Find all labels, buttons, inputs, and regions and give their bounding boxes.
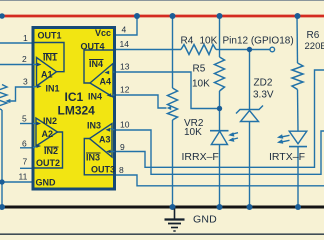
node B R5/pin13/IRRX (217, 106, 222, 111)
svg-text:A4: A4 (100, 77, 112, 87)
wire R4 right to node (216, 49, 220, 51)
wire ZD2 top from GPIO wire (249, 50, 251, 110)
resistor R4 10K (horizontal) (181, 45, 216, 55)
wire pin13 IN4- to node B (115, 72, 220, 109)
pin numbers (19, 25, 130, 182)
wire red bus to VR2 top (172, 16, 174, 88)
wire pin3 IN1+ to VR1 wiper (10, 87, 33, 101)
svg-text:3: 3 (23, 77, 28, 87)
svg-text:9: 9 (120, 142, 125, 152)
IR LED IRTX-F (281, 131, 307, 146)
IC1 LM324 body (33, 28, 115, 190)
svg-text:LM324: LM324 (58, 104, 96, 118)
node GND bus / IRRX (217, 204, 223, 210)
svg-text:10K: 10K (192, 79, 210, 90)
svg-text:OUT4: OUT4 (81, 41, 105, 51)
component value labels (181, 30, 324, 226)
wire IRTX cathode to GND bus (297, 147, 299, 207)
node pin11 / left edge (0, 179, 5, 184)
wire pin7 stub (20, 167, 33, 169)
resistor R6 220E (vertical) (292, 63, 303, 90)
svg-text:OUT1: OUT1 (38, 31, 62, 41)
svg-text:IN4: IN4 (88, 92, 102, 102)
svg-text:IRTX–F: IRTX–F (269, 151, 305, 163)
svg-text:GND: GND (193, 214, 217, 226)
svg-text:OUT3: OUT3 (91, 164, 115, 174)
wire pin5 stub (20, 123, 33, 125)
wire R5 bottom to node B (219, 91, 221, 109)
potentiometer VR2 10K (vertical) (168, 88, 178, 120)
node GND bus / IRTX (295, 204, 301, 210)
svg-text:2: 2 (22, 54, 27, 64)
svg-text:Pin12 (GPIO18): Pin12 (GPIO18) (223, 36, 294, 47)
wire pin4 Vcc to red bus (115, 16, 138, 35)
svg-text:10K: 10K (200, 36, 218, 47)
wire pin14 OUT4 to R4 (115, 49, 182, 51)
red Vcc bus (0, 15, 324, 18)
node red bus / R6 (295, 13, 301, 19)
svg-text:OUT2: OUT2 (36, 158, 60, 168)
black GND bus (0, 206, 324, 209)
IC labels (36, 28, 116, 188)
wire pin1 OUT1 to left edge (0, 42, 33, 44)
GPIO terminal circle (270, 47, 275, 52)
node GPIO wire / ZD2 (247, 47, 252, 52)
svg-text:14: 14 (120, 39, 130, 49)
svg-text:220E: 220E (305, 41, 324, 52)
wire red bus to R6 top (296, 16, 299, 63)
op-amp A1 (33, 43, 64, 87)
svg-text:IRRX–F: IRRX–F (182, 151, 219, 163)
op-amp A2 (33, 118, 63, 168)
svg-text:ZD2: ZD2 (254, 78, 273, 89)
wire pin10 IN3+ route to right edge (115, 130, 324, 174)
svg-text:A2: A2 (42, 129, 54, 139)
ground symbol (165, 209, 185, 232)
svg-text:11: 11 (19, 172, 28, 182)
photodiode IRRX-F (210, 131, 238, 145)
svg-text:1: 1 (23, 33, 28, 43)
arrows into photodiode (230, 133, 238, 135)
wire VR2 bottom to GND bus (172, 120, 174, 207)
svg-text:A1: A1 (41, 70, 53, 80)
wire R6 bottom to IRTX anode (297, 90, 300, 132)
svg-text:R6: R6 (307, 30, 320, 41)
op-amp A4 (84, 50, 113, 97)
wire pin8 OUT3 route to right edge (115, 175, 324, 186)
wire pin9 IN3- route to right edge (115, 70, 324, 167)
op-amp A3 (84, 124, 114, 175)
node GND bus / ZD2 (247, 204, 253, 210)
svg-text:GND: GND (36, 178, 57, 188)
wire pin11 GND to left edge (2, 181, 33, 183)
zener diode ZD2 3.3V (236, 106, 263, 122)
bottom frame line (0, 233, 324, 235)
svg-text:3.3V: 3.3V (253, 90, 274, 101)
svg-text:A3: A3 (99, 135, 111, 145)
svg-text:10: 10 (120, 120, 130, 130)
wire pin6 stub (20, 147, 33, 149)
wire IRRX cathode to GND bus (219, 145, 221, 208)
wire VR1 bottom to GND bus (1, 110, 3, 207)
svg-text:8: 8 (119, 165, 124, 175)
svg-text:4: 4 (122, 25, 127, 35)
svg-text:10K: 10K (184, 127, 202, 138)
svg-text:IC1: IC1 (65, 90, 84, 104)
svg-text:6: 6 (22, 139, 27, 149)
IC internal input stubs (33, 65, 115, 152)
resistor VR1 (preset, cut at left edge) (0, 85, 7, 111)
svg-text:13: 13 (120, 62, 130, 72)
top frame line (0, 0, 324, 1)
resistor R5 10K (vertical) (215, 57, 225, 91)
svg-text:12: 12 (120, 85, 130, 95)
node red bus / R4-R5 (217, 13, 223, 19)
arrows out of LED (281, 135, 290, 137)
svg-text:IN4: IN4 (89, 59, 103, 69)
wire node A to GPIO terminal (220, 49, 271, 51)
node GND bus / left (0, 204, 5, 210)
svg-text:Vcc: Vcc (95, 28, 111, 38)
wire node B to IRRX anode (219, 109, 221, 131)
svg-text:R5: R5 (193, 64, 206, 75)
wire red bus to node A (219, 16, 221, 57)
node red bus / left edge (0, 13, 5, 19)
svg-text:5: 5 (22, 114, 27, 124)
wire ZD2 bottom to GND bus (249, 122, 251, 208)
node red bus / VR2 (170, 13, 176, 19)
svg-text:IN1: IN1 (46, 84, 60, 94)
node red bus / pin4 (134, 13, 140, 19)
svg-text:IN3: IN3 (86, 153, 100, 163)
VR2 wiper arrow (167, 106, 171, 110)
svg-text:IN2: IN2 (43, 116, 57, 126)
svg-text:IN3: IN3 (87, 121, 101, 131)
wire pin2 IN1- to left edge (0, 64, 33, 66)
op-amp input arrows (36, 63, 111, 154)
svg-text:R4: R4 (181, 36, 194, 47)
wire pin12 IN4+ to VR2 wiper (115, 95, 167, 108)
node GND bus / VR2 (170, 204, 176, 210)
VR1 wiper arrow (5, 99, 10, 103)
svg-text:7: 7 (23, 157, 28, 167)
